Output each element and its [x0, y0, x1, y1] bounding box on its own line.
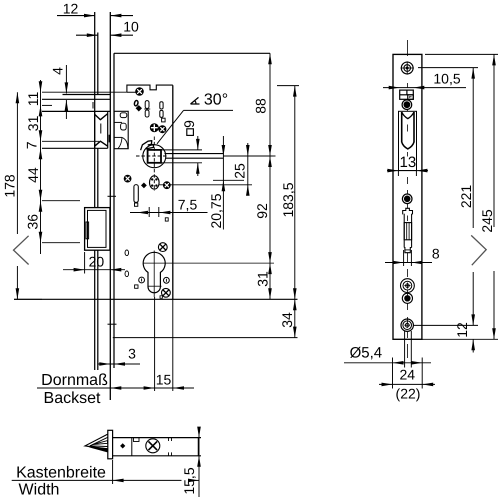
screw E	[163, 182, 170, 189]
small square A	[162, 118, 166, 122]
bottom view screw	[146, 439, 160, 453]
case front plate outer line	[109, 12, 111, 400]
bottom view case slab	[113, 437, 201, 439]
svg-text:24: 24	[400, 367, 416, 383]
square 9 extension bottom	[161, 162, 202, 164]
faceplate front edge line	[94, 12, 96, 208]
svg-text:13: 13	[400, 154, 417, 171]
svg-text:10,5: 10,5	[433, 70, 460, 86]
latch body center dash	[100, 124, 102, 134]
case bottom line	[14, 298, 298, 300]
faceplate rear edge line	[97, 33, 99, 95]
chain arrow y105	[39, 105, 43, 116]
svg-text:20,75: 20,75	[208, 193, 224, 228]
bottom view faceplate bar	[108, 430, 113, 459]
svg-text:15: 15	[156, 372, 172, 388]
svg-text:7: 7	[23, 141, 39, 149]
follower bar top line	[165, 153, 224, 155]
latch top extension line	[42, 91, 127, 93]
top screw hole	[401, 62, 413, 74]
bottom view clip detail	[134, 438, 140, 442]
lower extension line y337	[113, 337, 298, 339]
top cutout inner rect	[408, 95, 414, 100]
follower axis extension	[223, 155, 272, 157]
deadbolt inner rect	[88, 210, 107, 247]
follower pawl	[141, 141, 154, 151]
latch section bar	[109, 135, 111, 143]
case front joint tick upper	[108, 195, 117, 197]
cylinder axis extension line	[143, 262, 274, 264]
cylinder axis vertical extension	[154, 297, 156, 391]
latch bolt top notch	[95, 114, 108, 120]
dimension 13 line	[387, 170, 428, 172]
dimension 25 line	[247, 143, 249, 191]
plate width extension lines	[392, 358, 394, 389]
screw A top	[136, 88, 144, 96]
dimension 7.5 line	[130, 212, 208, 214]
extension line screw center	[413, 324, 478, 326]
bolt in slot	[404, 223, 411, 240]
svg-text:(22): (22)	[396, 385, 421, 401]
deadbolt outline	[85, 208, 110, 251]
svg-text:3: 3	[128, 346, 136, 362]
tiny oval A	[125, 250, 129, 256]
case front plate inner line	[113, 53, 115, 368]
faceplate centerline	[406, 40, 408, 56]
extension line y180	[213, 179, 244, 181]
svg-text:Kastenbreite: Kastenbreite	[16, 465, 106, 482]
small part top-left	[134, 100, 139, 106]
screw C	[159, 126, 166, 133]
auxiliary latch inner lines	[114, 121, 122, 123]
case width extension line	[112, 460, 114, 484]
dimension 245 line	[493, 54, 495, 227]
latch nose bevel line	[42, 98, 110, 100]
latch bolt body	[94, 111, 96, 148]
left break chevron	[14, 236, 29, 265]
extension line plate top	[425, 53, 498, 55]
dimension 22 line	[379, 383, 435, 385]
follower centerline vertical	[153, 137, 155, 192]
screw F	[158, 243, 167, 252]
screw B	[150, 124, 158, 132]
svg-text:183,5: 183,5	[280, 182, 296, 217]
dimension 24 line	[344, 362, 431, 364]
top cutout	[400, 90, 414, 99]
svg-text:44: 44	[25, 167, 41, 183]
screw hole B filled	[402, 100, 412, 110]
faceplate plate outline	[393, 54, 422, 339]
screw hole C filled	[402, 194, 412, 204]
dimension 92 line	[269, 156, 271, 263]
latch opening	[399, 111, 417, 170]
case front joint tick	[108, 323, 117, 325]
dimension 7.5 extension lines	[148, 207, 150, 217]
svg-text:Width: Width	[19, 482, 60, 499]
extension line y85 right	[277, 85, 299, 87]
svg-text:245: 245	[479, 209, 495, 233]
svg-text:11: 11	[25, 92, 41, 107]
svg-text:178: 178	[1, 174, 17, 198]
svg-text:10: 10	[123, 18, 139, 34]
bolt slot stub	[404, 248, 411, 253]
follower square	[148, 150, 161, 163]
screw hole extension lines	[404, 331, 406, 368]
euro cylinder	[143, 252, 165, 292]
dimension 20.75 line	[222, 136, 224, 230]
square 9 dimension line	[197, 136, 199, 150]
latch bottom line	[42, 147, 108, 149]
dimension 183.5 line	[294, 86, 296, 300]
dimension 15.5 line	[198, 427, 200, 497]
svg-text:36: 36	[25, 214, 41, 230]
svg-text:Ø5,4: Ø5,4	[350, 345, 383, 362]
extension line y200	[42, 200, 80, 202]
chain arrow y92	[39, 81, 43, 92]
svg-text:34: 34	[279, 312, 295, 328]
bottom view tick marks	[168, 438, 170, 441]
dimension 10 line	[76, 34, 98, 36]
auxiliary latch	[114, 111, 128, 148]
bolt slot cap	[403, 208, 413, 214]
bottom view divider	[131, 438, 133, 456]
svg-text:12: 12	[63, 0, 79, 16]
bolt slot	[403, 214, 405, 248]
dimension 31 right line	[269, 263, 271, 299]
svg-text:31: 31	[254, 271, 270, 287]
case top edge	[127, 85, 173, 92]
dimension 4 line	[65, 65, 67, 93]
diamond pin A	[136, 105, 142, 111]
chain arrows y200	[39, 190, 43, 201]
30 degree angle symbol	[191, 97, 200, 104]
left dimension chain line	[40, 80, 42, 254]
small square B	[165, 218, 168, 221]
svg-text:20: 20	[89, 253, 105, 269]
top cutout center bar	[406, 90, 408, 95]
extension line plate bottom	[422, 338, 498, 340]
latch nose bottom line	[42, 110, 110, 112]
svg-text:12: 12	[454, 322, 470, 338]
follower circle	[143, 145, 166, 168]
case right edge extension	[172, 299, 174, 391]
screw G	[162, 288, 171, 297]
svg-text:7,5: 7,5	[178, 197, 198, 213]
oval below follower	[150, 176, 160, 189]
latch nose top line	[63, 94, 111, 96]
dimension 8 line	[385, 262, 432, 264]
tiny square C	[135, 285, 138, 288]
dot circle A	[139, 277, 145, 283]
dimension 3 line	[98, 363, 140, 365]
follower centerline horizontal	[136, 155, 167, 157]
extension line y141	[42, 140, 99, 142]
bottom screw hole	[401, 319, 413, 331]
dimension 221 line	[472, 68, 474, 228]
dimension 34 line	[294, 299, 296, 337]
bottom view latch beak	[85, 434, 108, 449]
dot circle B	[164, 277, 170, 283]
bottom view diamond	[120, 443, 125, 448]
extension line oval right	[159, 184, 252, 186]
svg-text:88: 88	[252, 98, 268, 114]
dimension 12 line	[57, 15, 95, 17]
spring slot upper	[160, 102, 163, 109]
svg-text:221: 221	[458, 185, 474, 209]
extension line y105	[42, 104, 52, 106]
svg-text:Backset: Backset	[44, 390, 101, 407]
latch head in opening	[402, 112, 414, 119]
latch center dash	[92, 102, 94, 109]
chain arrow y141	[39, 130, 43, 141]
30 degree leader	[184, 109, 234, 111]
svg-text:9: 9	[181, 120, 197, 128]
case top plate line	[114, 52, 270, 54]
deadbolt inner right line	[105, 210, 107, 247]
case width dimension line	[12, 479, 182, 481]
extension line top screw	[418, 67, 478, 69]
dimension 10.5 line	[383, 87, 466, 89]
chain arrow y242	[39, 232, 43, 243]
diamond pin B	[141, 183, 147, 189]
svg-text:31: 31	[25, 115, 41, 131]
dimension 88 line	[269, 53, 271, 156]
backset dimension line	[37, 387, 194, 389]
spring slot lower	[134, 185, 138, 203]
case right edge	[172, 85, 174, 299]
extension line y242	[42, 242, 80, 244]
dimension 20 line	[63, 269, 125, 271]
case edge hook	[127, 90, 138, 92]
square 9 extension top	[161, 149, 202, 151]
spring slot left	[145, 101, 149, 109]
right break chevron	[471, 235, 486, 265]
cylinder vertical centerline	[153, 251, 155, 298]
follower bar bottom line	[166, 157, 223, 159]
deadbolt extension line	[84, 252, 86, 274]
screw hole D	[401, 279, 415, 293]
chain arrow y148	[39, 148, 43, 159]
svg-text:30°: 30°	[204, 92, 228, 109]
dimension 12 right line	[472, 339, 474, 352]
dimension 178 line	[16, 92, 18, 234]
svg-text:Dornmaß: Dornmaß	[41, 372, 108, 389]
svg-text:92: 92	[254, 203, 270, 219]
cylinder stem dash	[148, 285, 162, 287]
svg-text:8: 8	[432, 245, 440, 261]
svg-text:4: 4	[49, 67, 65, 75]
extension line bottom left	[14, 298, 42, 300]
tiny square D	[160, 296, 162, 298]
screw hole E filled	[402, 293, 412, 303]
svg-text:25: 25	[231, 163, 247, 179]
deadbolt retaining notch	[86, 222, 89, 239]
tiny oval B	[125, 271, 129, 277]
latch bolt bottom notch	[95, 141, 108, 146]
follower axis tick	[264, 155, 276, 157]
screw D	[124, 175, 131, 182]
